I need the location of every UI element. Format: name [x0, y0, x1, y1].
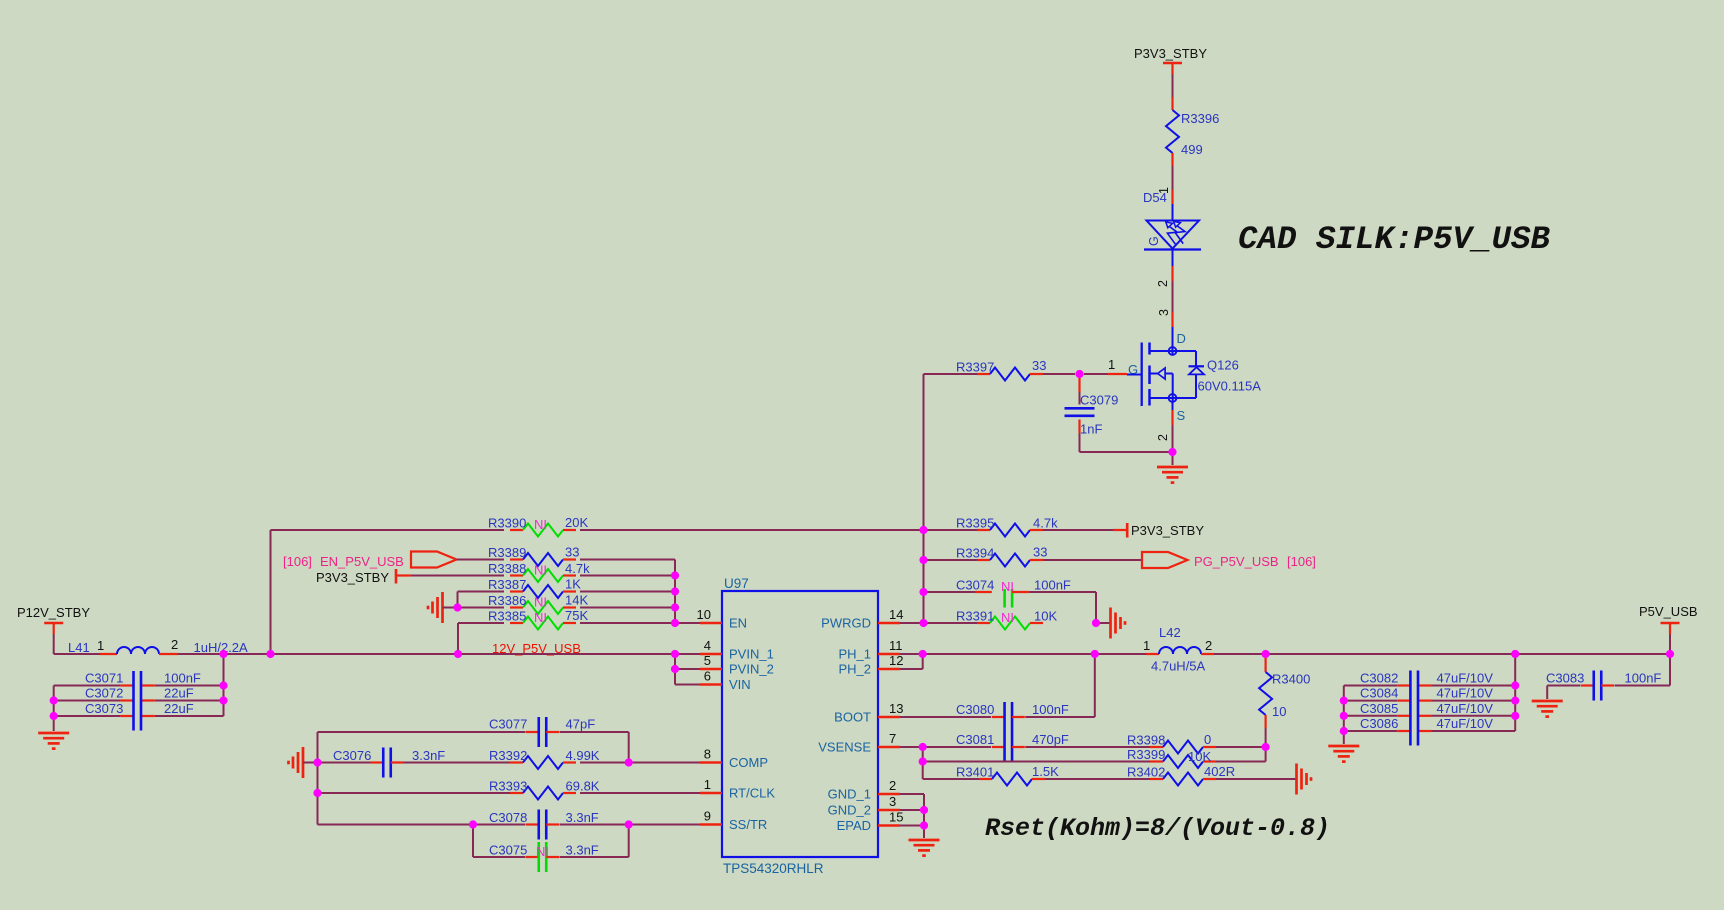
wire EN collector bus (vertical) [674, 560, 676, 624]
svg-text:C3080: C3080 [956, 702, 994, 717]
svg-text:C3072: C3072 [85, 686, 123, 701]
svg-text:R3401: R3401 [956, 765, 994, 780]
svg-text:11: 11 [889, 638, 903, 653]
wire 12V rail [178, 653, 700, 655]
svg-text:RT/CLK: RT/CLK [729, 786, 775, 801]
svg-text:R3399: R3399 [1127, 747, 1165, 762]
pin 1 (RT/CLK) of U97 [700, 777, 775, 801]
capacitor C3072 [120, 699, 154, 701]
off-page connector EN_P5V_USB [411, 552, 457, 568]
pin 9 (SS/TR) of U97 [700, 809, 767, 833]
svg-text:7: 7 [889, 731, 896, 746]
wire C3083 branch [1547, 654, 1670, 699]
label C3083 [1546, 671, 1584, 686]
svg-text:33: 33 [565, 545, 579, 560]
capacitor C3079 [1065, 378, 1095, 433]
svg-text:PVIN_1: PVIN_1 [729, 647, 774, 662]
resistor R3386 (NI) [510, 601, 576, 614]
wire R3397 to gate node [1043, 373, 1075, 375]
junction source/ground node [1168, 448, 1176, 456]
svg-text:4.99K: 4.99K [566, 748, 600, 763]
ground below EPAD [909, 840, 940, 856]
wire C3075 row [473, 825, 629, 858]
pin 1 of D54 [1157, 187, 1173, 204]
transistor Q126 (N-MOSFET) [1142, 327, 1204, 410]
pin 4 (PVIN_1) of U97 [700, 638, 774, 662]
label C3075 [489, 843, 527, 858]
wire BOOT row [900, 654, 1095, 717]
svg-text:SS/TR: SS/TR [729, 817, 767, 832]
svg-text:C3085: C3085 [1360, 701, 1398, 716]
svg-text:D54: D54 [1143, 190, 1167, 205]
svg-text:3.3nF: 3.3nF [566, 810, 599, 825]
label C3072 [85, 686, 123, 701]
svg-text:2: 2 [1156, 434, 1170, 441]
svg-text:4.7k: 4.7k [1033, 516, 1058, 531]
junction PVIN_2 branch [671, 665, 679, 673]
value 100nF (C3083) [1625, 671, 1662, 686]
svg-text:5: 5 [704, 653, 711, 668]
svg-text:R3396: R3396 [1181, 111, 1219, 126]
wire R3401 row [923, 778, 1150, 780]
svg-text:NI: NI [1001, 610, 1014, 625]
capacitor C3084 [1397, 699, 1431, 701]
wire R3398 to R3400 node [1216, 746, 1266, 748]
wire P3V3 tag to R3388 [396, 574, 504, 576]
value 4.99K [566, 748, 600, 763]
wire ground to R3386 [443, 607, 458, 609]
svg-text:P3V3_STBY: P3V3_STBY [1131, 523, 1204, 538]
svg-text:C3084: C3084 [1360, 686, 1398, 701]
wire P3V3_STBY to R3396 [1172, 74, 1174, 97]
svg-text:C3078: C3078 [489, 810, 527, 825]
net label PG_P5V_USB [106] [1194, 554, 1316, 569]
pin 1 label of L41 [97, 638, 104, 653]
label C3071 [85, 671, 123, 686]
svg-text:47uF/10V: 47uF/10V [1437, 701, 1494, 716]
gate lead [1127, 374, 1142, 376]
svg-text:R3391: R3391 [956, 609, 994, 624]
label R3399 [1127, 747, 1165, 762]
junction bank right C3084 [1511, 697, 1519, 705]
label D (drain) [1177, 331, 1186, 346]
wire PH rail to L42 [923, 653, 1146, 655]
svg-text:6: 6 [704, 669, 711, 684]
sideways ground at C3076 [289, 747, 304, 778]
junction bus/R3395 [919, 526, 927, 534]
svg-text:R3392: R3392 [489, 748, 527, 763]
label R3394 [956, 546, 994, 561]
wire C3071 bank right rail [155, 654, 224, 716]
svg-text:EN: EN [729, 616, 747, 631]
wire bus to R3394 [924, 559, 978, 561]
value 100nF (C3071) [164, 671, 201, 686]
wire R3386 left [458, 607, 505, 609]
junction output/cap bank [1511, 650, 1519, 658]
resistor R3398 [1150, 741, 1216, 754]
resistor R3388 (NI) [510, 569, 576, 582]
svg-text:R3394: R3394 [956, 546, 994, 561]
junction bank left C3072 [50, 696, 58, 704]
junction output/R3400 [1262, 650, 1270, 658]
value 1.5K [1032, 764, 1059, 779]
junction bank left C3073 [50, 712, 58, 720]
svg-text:499: 499 [1181, 142, 1203, 157]
label R3390 [488, 516, 526, 531]
pin 6 (VIN) of U97 [700, 669, 751, 693]
value 10K (R3399) [1188, 749, 1211, 764]
svg-text:R3393: R3393 [489, 779, 527, 794]
ground below Q126 [1157, 467, 1188, 483]
junction COMP left node [313, 758, 321, 766]
svg-text:69.8K: 69.8K [566, 779, 600, 794]
wire R3395 to P3V3_STBY tag [1043, 529, 1126, 531]
pin 5 (PVIN_2) of U97 [700, 653, 774, 677]
junction bank left C3084 [1340, 697, 1348, 705]
svg-text:12: 12 [889, 653, 903, 668]
svg-text:NI: NI [534, 563, 547, 578]
value 1nF [1080, 422, 1102, 437]
value 4.7k [565, 561, 590, 576]
label C3073 [85, 701, 123, 716]
svg-text:P12V_STBY: P12V_STBY [17, 605, 90, 620]
resistor R3392 [510, 756, 576, 769]
svg-text:10K: 10K [1188, 749, 1211, 764]
wire bus to C3074 [924, 591, 976, 593]
svg-text:PWRGD: PWRGD [821, 616, 871, 631]
wire RT/CLK row [318, 792, 511, 794]
wire C3079 to source node [1080, 433, 1173, 452]
net label 12V_P5V_USB [492, 641, 581, 656]
svg-text:C3077: C3077 [489, 717, 527, 732]
svg-text:C3079: C3079 [1080, 393, 1118, 408]
svg-text:NI: NI [536, 844, 549, 859]
label NI (R3386) [534, 595, 547, 610]
junction bank left C3085 [1340, 712, 1348, 720]
label R3400 [1272, 672, 1310, 687]
label R3397 [956, 360, 994, 375]
label C3080 [956, 702, 994, 717]
svg-text:PH_1: PH_1 [838, 647, 871, 662]
junction output/P5V [1666, 650, 1674, 658]
svg-text:1: 1 [97, 638, 104, 653]
svg-text:1.5K: 1.5K [1032, 764, 1059, 779]
plates of C3071-C3073 [134, 671, 142, 731]
junction EPAD [920, 821, 928, 829]
junction R3386/ground [453, 603, 461, 611]
svg-text:NI: NI [534, 517, 547, 532]
label R3389 [488, 545, 526, 560]
label R3388 [488, 561, 526, 576]
capacitor C3077 [526, 717, 559, 747]
wire L42 to output rail [1214, 653, 1670, 655]
power symbol P12V_STBY [44, 623, 63, 634]
svg-text:S: S [1177, 408, 1186, 423]
resistor R3387 [510, 585, 576, 598]
wire output cap bank right rail [1432, 654, 1516, 731]
svg-text:100nF: 100nF [1625, 671, 1662, 686]
svg-text:[106]: [106] [1287, 554, 1316, 569]
pin 2 label of L41 [171, 637, 178, 652]
junction PH node [919, 650, 927, 658]
label C3082 [1360, 671, 1398, 686]
wire R3388 to EN bus [580, 575, 675, 577]
svg-text:15: 15 [889, 810, 903, 825]
wire PWRGD bus (vertical) [923, 374, 925, 623]
svg-text:R3387: R3387 [488, 577, 526, 592]
label R3386 [488, 593, 526, 608]
resistor R3391 (NI) [977, 617, 1043, 630]
svg-text:9: 9 [704, 809, 711, 824]
junction gate node [1075, 370, 1083, 378]
svg-text:C3074: C3074 [956, 578, 994, 593]
svg-text:33: 33 [1033, 545, 1047, 560]
wire R3399 row [923, 747, 1266, 779]
svg-text:C3076: C3076 [333, 748, 371, 763]
wire ground to COMP node [303, 762, 318, 764]
net label P5V_USB [1639, 604, 1698, 619]
pin 1 of Q126 (gate) [1084, 357, 1127, 374]
pin 2 of Q126 (source) [1156, 410, 1173, 441]
value 47pF [566, 717, 596, 732]
label C3084 [1360, 686, 1398, 701]
label C3079 [1080, 393, 1118, 408]
capacitor C3071 [120, 684, 154, 686]
svg-text:100nF: 100nF [164, 671, 201, 686]
svg-text:C3083: C3083 [1546, 671, 1584, 686]
svg-text:1: 1 [1108, 357, 1115, 372]
value 100nF [1034, 578, 1071, 593]
wire comp left bus (vertical) [317, 732, 319, 825]
capacitor C3081 [992, 732, 1025, 762]
svg-text:P5V_USB: P5V_USB [1639, 604, 1698, 619]
ground below C3071 bank [38, 733, 69, 749]
value 22uF (C3072) [164, 686, 194, 701]
svg-text:L41: L41 [68, 640, 90, 655]
label NI (R3388) [534, 563, 547, 578]
svg-text:R3397: R3397 [956, 360, 994, 375]
svg-text:R3385: R3385 [488, 609, 526, 624]
svg-text:PG_P5V_USB: PG_P5V_USB [1194, 554, 1279, 569]
value 47uF/10V (C3085) [1437, 701, 1494, 716]
svg-text:33: 33 [1032, 358, 1046, 373]
label C3074 [956, 578, 994, 593]
wire R3386 to EN bus [580, 607, 675, 609]
ground below C3083 [1532, 701, 1563, 717]
value 47uF/10V (C3084) [1437, 686, 1494, 701]
pin 8 (COMP) of U97 [700, 747, 768, 771]
value 47uF/10V (C3086) [1437, 716, 1494, 731]
junction EN bus R3386 [671, 603, 679, 611]
wire D54 to Q126 drain [1172, 281, 1174, 312]
junction bus/PWRGD [919, 619, 927, 627]
label C3086 [1360, 716, 1398, 731]
pin 1 label of L42 [1143, 638, 1150, 653]
svg-text:2: 2 [889, 778, 896, 793]
resistor R3396 [1166, 97, 1179, 166]
resistor R3393 [510, 787, 576, 800]
junction SS row right [625, 820, 633, 828]
svg-text:8: 8 [704, 747, 711, 762]
value 100nF (C3080) [1032, 702, 1069, 717]
svg-text:R3388: R3388 [488, 561, 526, 576]
label S (source) [1177, 408, 1186, 423]
wire C3071 bank left rail [54, 686, 121, 732]
annotation CAD SILK:P5V_USB [1238, 221, 1551, 258]
pin 10 (EN) of U97 [697, 607, 748, 631]
off-page connector PG_P5V_USB [1142, 552, 1188, 568]
svg-text:402R: 402R [1204, 764, 1235, 779]
svg-text:4.7k: 4.7k [565, 561, 590, 576]
svg-text:20K: 20K [565, 515, 588, 530]
value 1K [565, 577, 581, 592]
junction bank right C3071 [219, 681, 227, 689]
label R3392 [489, 748, 527, 763]
label R3391 [956, 609, 994, 624]
junction bank right C3082 [1511, 681, 1519, 689]
wire Q126 source to ground [1172, 425, 1174, 465]
pin 14 (PWRGD) of U97 [821, 607, 903, 631]
label R3385 [488, 609, 526, 624]
value 4.7k [1033, 516, 1058, 531]
capacitor C3085 [1397, 715, 1431, 717]
svg-text:2: 2 [1205, 638, 1212, 653]
wire bus to R3397 [924, 373, 978, 375]
pin 3 (GND_2) of U97 [828, 794, 900, 818]
svg-text:14K: 14K [565, 593, 588, 608]
label NI (R3390) [534, 517, 547, 532]
resistor R3385 (NI) [510, 617, 576, 630]
wire C3077 row [318, 732, 629, 763]
svg-text:100nF: 100nF [1032, 702, 1069, 717]
wire R3387 left branch [458, 592, 505, 608]
svg-text:3.3nF: 3.3nF [412, 748, 445, 763]
wire C3074 to R3391 node [1029, 592, 1096, 623]
power symbol P3V3_STBY [1163, 63, 1182, 74]
resistor R3400 (vertical) [1259, 654, 1272, 728]
value 3.3nF (C3078) [566, 810, 599, 825]
net label P12V_STBY [17, 605, 90, 620]
resistor R3395 [977, 524, 1043, 537]
resistor R3401 [979, 773, 1045, 786]
svg-text:Q126: Q126 [1207, 358, 1239, 373]
junction EN bus R3385 [671, 619, 679, 627]
svg-text:GND_2: GND_2 [828, 803, 871, 818]
svg-text:NI: NI [1001, 579, 1014, 594]
plates of C3082-C3086 [1410, 671, 1418, 746]
svg-text:P3V3_STBY: P3V3_STBY [1134, 46, 1207, 61]
value 3.3nF [412, 748, 445, 763]
junction GND_2 [920, 806, 928, 814]
wire R3385 left branch to 12V rail [458, 623, 504, 654]
svg-text:PH_2: PH_2 [838, 662, 871, 677]
svg-text:PVIN_2: PVIN_2 [729, 662, 774, 677]
ground below output cap bank [1328, 746, 1359, 762]
svg-text:VSENSE: VSENSE [818, 740, 871, 755]
junction bus/R3394 [919, 556, 927, 564]
junction EN bus R3387 [671, 587, 679, 595]
svg-text:EPAD: EPAD [837, 818, 871, 833]
svg-text:47uF/10V: 47uF/10V [1437, 671, 1494, 686]
svg-text:COMP: COMP [729, 755, 768, 770]
svg-text:R3402: R3402 [1127, 765, 1165, 780]
pin 12 (PH_2) of U97 [838, 653, 903, 677]
svg-text:3: 3 [1157, 309, 1171, 316]
value 1uH/2.2A [194, 640, 249, 655]
wire R3387 to EN bus [580, 591, 675, 593]
pin 13 (BOOT) of U97 [834, 701, 903, 725]
wire R3390 row (12V to bus) [271, 529, 924, 531]
power symbol P5V_USB [1661, 623, 1680, 634]
op-amp U97 (TPS54320RHLR buck regulator) [722, 591, 878, 857]
wire bus to R3391 [900, 622, 977, 624]
wire R3385 to EN pin [580, 622, 700, 624]
value 10K [1034, 609, 1057, 624]
svg-text:D: D [1177, 331, 1186, 346]
net label P3V3_STBY (top) [1134, 46, 1207, 61]
pin 2 label of L42 [1205, 638, 1212, 653]
svg-text:0: 0 [1204, 732, 1211, 747]
value 14K [565, 593, 588, 608]
svg-text:1nF: 1nF [1080, 422, 1102, 437]
wire R3402 to ground [1216, 778, 1296, 780]
value 60V0.115A [1198, 379, 1262, 394]
svg-text:13: 13 [889, 701, 903, 716]
svg-text:CAD SILK:P5V_USB: CAD SILK:P5V_USB [1238, 221, 1551, 258]
capacitor C3082 [1397, 684, 1431, 686]
svg-text:U97: U97 [724, 576, 749, 591]
capacitor C3074 (NI) [975, 589, 1029, 608]
svg-text:4: 4 [704, 638, 711, 653]
value 47uF/10V (C3082) [1437, 671, 1494, 686]
sideways ground at R3386 [428, 592, 443, 623]
svg-text:C3082: C3082 [1360, 671, 1398, 686]
value 499 [1181, 142, 1203, 157]
label C3078 [489, 810, 527, 825]
value 33 [1032, 358, 1046, 373]
label NI (R3385) [534, 610, 547, 625]
svg-text:470pF: 470pF [1032, 732, 1069, 747]
svg-text:P3V3_STBY: P3V3_STBY [316, 570, 389, 585]
net label [106] EN_P5V_USB [283, 554, 404, 569]
svg-text:TPS54320RHLR: TPS54320RHLR [723, 861, 824, 876]
value 22uF (C3073) [164, 701, 194, 716]
svg-text:R3398: R3398 [1127, 733, 1165, 748]
value 33 [1033, 545, 1047, 560]
wire R3390 branch down to 12V rail [270, 530, 272, 654]
svg-text:GND_1: GND_1 [828, 787, 871, 802]
value 470pF [1032, 732, 1069, 747]
junction bank right C3085 [1511, 712, 1519, 720]
LED D54 [1144, 204, 1201, 266]
inductor L42 [1146, 647, 1214, 654]
capacitor C3086 [1397, 730, 1431, 732]
svg-text:4.7uH/5A: 4.7uH/5A [1151, 659, 1206, 674]
wire R3396 to D54 [1172, 166, 1174, 190]
pin 2 (GND_1) of U97 [828, 778, 900, 802]
svg-text:2: 2 [171, 637, 178, 652]
label R3396 [1181, 111, 1219, 126]
junction C3077/COMP [625, 758, 633, 766]
wire R3393 to RT/CLK pin [580, 792, 700, 794]
junction bank right C3072 [219, 696, 227, 704]
junction PH/C3080 [1091, 650, 1099, 658]
svg-text:75K: 75K [565, 608, 588, 623]
svg-text:C3086: C3086 [1360, 716, 1398, 731]
value 75K [565, 608, 588, 623]
value 3.3nF (C3075) [566, 843, 599, 858]
capacitor C3076 [371, 748, 404, 778]
